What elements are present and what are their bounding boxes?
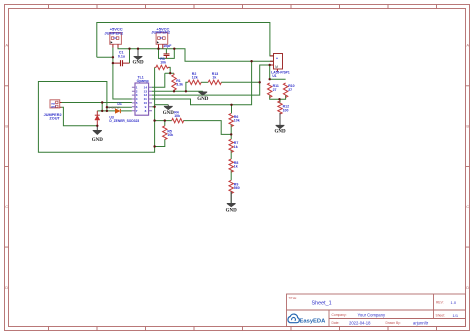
wire IC pin13 ground rail with R1 bottom and R2 branch <box>152 82 203 91</box>
svg-text:5V: 5V <box>160 36 163 40</box>
resistor R8 1k (vertical) <box>229 159 238 172</box>
svg-text:560: 560 <box>234 186 240 190</box>
svg-text:3.3k: 3.3k <box>176 82 183 86</box>
EasyEDA logo <box>288 314 326 325</box>
wire sense resistor bottoms to R12 <box>270 96 286 103</box>
svg-text:C: C <box>466 204 469 209</box>
svg-text:GND: GND <box>274 130 286 135</box>
svg-text:JUMPER2: JUMPER2 <box>104 30 124 35</box>
wire R9 to GND <box>230 192 232 204</box>
wire R2 to R13 <box>201 81 208 83</box>
svg-text:5V: 5V <box>113 36 116 40</box>
jumper ZOUT JUMPER2 <box>44 100 62 121</box>
capacitor C1 0.1u <box>113 51 130 67</box>
junction dots <box>96 48 281 148</box>
svg-text:Sheet:: Sheet: <box>436 314 446 318</box>
svg-text:ZOUT: ZOUT <box>49 116 60 120</box>
svg-text:10k: 10k <box>160 60 166 64</box>
svg-text:Drawn By:: Drawn By: <box>386 321 401 325</box>
svg-text:GND: GND <box>163 111 175 116</box>
svg-text:10pF: 10pF <box>163 44 172 48</box>
svg-text:100: 100 <box>283 108 289 112</box>
resistor R11 27 (vertical, sense) <box>268 83 279 98</box>
svg-text:1.0: 1.0 <box>451 300 457 305</box>
resistor R5 10k (vertical) <box>163 126 174 140</box>
wire C1 branch <box>129 49 131 63</box>
svg-text:gnd: gnd <box>51 105 56 109</box>
resistor R2 12k <box>188 72 201 85</box>
zener diode U3 D_ZENER_SOD323 <box>95 111 140 126</box>
wire IC pin14 up to R3/R1 node <box>152 73 165 87</box>
svg-text:2022-04-18: 2022-04-18 <box>349 321 371 326</box>
ground GND5 (R12) <box>274 113 286 135</box>
jumper J2 +5VCC <box>151 27 171 49</box>
svg-text:GND: GND <box>197 97 209 102</box>
svg-text:Sheet_1: Sheet_1 <box>312 301 332 307</box>
svg-text:27: 27 <box>288 88 292 92</box>
svg-text:A: A <box>5 43 8 48</box>
wire ZOUT pin2 to IC pin6 with GND branch <box>62 107 98 126</box>
svg-text:REV:: REV: <box>436 300 444 304</box>
svg-text:1/1: 1/1 <box>453 313 459 318</box>
wire top loop from J1 area to LA55 pin1 <box>97 23 274 58</box>
wire R7 to R8 <box>230 151 232 160</box>
svg-text:10k: 10k <box>174 114 180 118</box>
wire R3 right to junction and R1 top <box>165 67 174 73</box>
svg-text:27: 27 <box>273 88 277 92</box>
ground GND4 (zener) <box>92 126 104 143</box>
svg-text:Date:: Date: <box>332 321 340 325</box>
svg-text:Opamp: Opamp <box>137 79 149 83</box>
svg-text:U1: U1 <box>272 74 276 78</box>
svg-text:D: D <box>5 285 8 290</box>
svg-text:arjunnltr: arjunnltr <box>413 321 429 326</box>
wire IC pin12 long rail to R13 node and LA55 M pin <box>152 65 270 95</box>
svg-text:1k: 1k <box>212 75 216 79</box>
title block <box>287 294 466 327</box>
svg-text:0.1u: 0.1u <box>118 55 125 59</box>
svg-text:D: D <box>466 285 469 290</box>
resistor R12 100 (vertical) <box>278 101 289 114</box>
diode D1 1N4007W <box>106 102 122 113</box>
svg-text:1N4007W: 1N4007W <box>106 105 120 109</box>
svg-text:TITLE:: TITLE: <box>289 296 298 300</box>
svg-text:JUMPER2: JUMPER2 <box>151 29 171 34</box>
resistor R6 10k (vertical) <box>229 113 240 126</box>
ground GND3 (IC area) <box>163 105 175 116</box>
svg-text:1k: 1k <box>234 145 238 149</box>
svg-text:Your Company: Your Company <box>358 313 386 318</box>
wire zener diode D1 row to IC pin7 <box>97 110 132 112</box>
wire R5 bottom to vertical rail <box>155 139 165 146</box>
wire J1 left pin down to IC pin4 <box>113 48 132 100</box>
wire R4 right to R6/R7 node <box>183 121 231 135</box>
wire R8 to R9 <box>230 170 232 180</box>
svg-text:Company:: Company: <box>332 313 347 317</box>
svg-text:+: + <box>276 56 278 60</box>
resistor R13 1k <box>208 72 221 85</box>
svg-text:B: B <box>466 124 469 129</box>
wire GND3 branch <box>155 104 169 106</box>
wire y57.3 loop to J1 left pin <box>97 56 113 58</box>
svg-text:12k: 12k <box>192 75 198 79</box>
wire IC pin9 stub to vertical <box>152 106 155 108</box>
svg-text:A: A <box>466 43 469 48</box>
resistor R7 1k (vertical) <box>229 139 238 152</box>
op-amp U TL1 Opamp (14-pin IC) <box>132 76 152 116</box>
resistor R3 10k (horizontal, above IC) <box>155 57 170 70</box>
wire IC pin11 to R6 top and VCC rail <box>152 61 252 113</box>
svg-text:GND: GND <box>226 209 238 214</box>
ground GND1 (top rail) <box>132 49 144 66</box>
svg-text:10k: 10k <box>234 119 240 123</box>
wire R4 left to vertical rail <box>155 120 172 122</box>
svg-text:B: B <box>5 124 8 129</box>
resistor R10 27 (vertical, sense) <box>283 83 294 98</box>
wire ZOUT pin1 to IC pin5 <box>62 103 132 111</box>
resistor R4 10k <box>172 111 184 123</box>
svg-text:M: M <box>275 65 278 69</box>
wire R3 left lead long vertical + bottom loop + left loop up to zener row <box>38 67 154 152</box>
resistor R1 3.3k (vertical) <box>172 73 183 91</box>
current transducer U1 LA55-P/SP1 <box>270 54 290 78</box>
svg-text:GND: GND <box>132 61 144 66</box>
wire C2 parallel loop at J2 <box>159 49 175 59</box>
ground GND6 (R9 chain) <box>226 192 238 214</box>
svg-text:C: C <box>5 204 8 209</box>
svg-text:1k: 1k <box>234 165 238 169</box>
resistor R9 560 (vertical) <box>229 180 240 193</box>
wire current sense resistor top joins <box>270 78 286 80</box>
wire loop branch to IC pin6 <box>107 106 132 108</box>
svg-text:D_ZENER_SOD323: D_ZENER_SOD323 <box>109 119 139 123</box>
wire +5VCC rail <box>118 48 274 62</box>
svg-text:10k: 10k <box>167 133 173 137</box>
svg-text:GND: GND <box>92 138 104 143</box>
jumper J1 +5VCC <box>104 27 124 48</box>
ground GND2 (R2 node) <box>197 91 209 102</box>
wire R6 bottom through node to R7 <box>230 125 232 139</box>
svg-text:EasyEDA: EasyEDA <box>300 319 327 325</box>
svg-text:8: 8 <box>145 109 147 113</box>
wire R5 top <box>164 121 166 126</box>
svg-text:7: 7 <box>136 109 138 113</box>
capacitor C2 10pF <box>163 44 172 58</box>
